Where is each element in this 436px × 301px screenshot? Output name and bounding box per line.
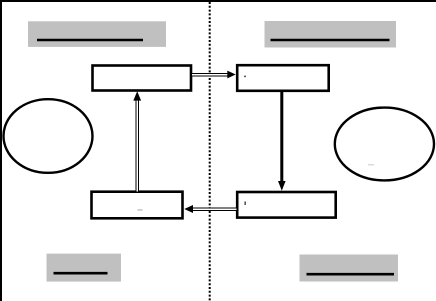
box lower-left bbox=[92, 192, 183, 219]
arrowhead of bottom-left arrow bbox=[184, 205, 193, 213]
box upper-right bbox=[237, 65, 329, 91]
page border top edge bbox=[0, 0, 436, 2]
tiny tick inside box lower-right bbox=[245, 202, 246, 206]
dotted center divider line bbox=[209, 2, 211, 301]
label underline top-right bbox=[271, 39, 390, 41]
tiny dot inside box upper-right bbox=[244, 76, 246, 78]
gray label box bottom-right bbox=[300, 255, 399, 282]
gray label box top-left bbox=[28, 21, 166, 47]
gray label box top-right bbox=[265, 21, 397, 48]
box lower-right bbox=[237, 192, 336, 218]
page border left edge bbox=[0, 0, 2, 301]
label underline bottom-left bbox=[54, 272, 108, 275]
gray label box bottom-left bbox=[47, 254, 122, 282]
label underline top-left bbox=[37, 39, 143, 41]
double-line arrow upper-left box to upper-right box bbox=[192, 73, 229, 77]
double-line arrow lower-left box up to upper-left box bbox=[135, 100, 139, 192]
arrowhead of top arrow bbox=[227, 71, 235, 79]
right ellipse bbox=[335, 108, 434, 181]
arrowhead of up arrow bbox=[133, 91, 141, 100]
left ellipse bbox=[4, 99, 93, 173]
thick arrow upper-right box down to lower-right box bbox=[278, 91, 286, 191]
faint mark inside right ellipse bbox=[368, 164, 374, 165]
label underline bottom-right bbox=[307, 273, 395, 276]
faint dash inside box lower-left bbox=[138, 209, 143, 210]
box upper-left bbox=[93, 66, 192, 91]
double-line arrow lower-right box to lower-left box bbox=[192, 207, 237, 211]
